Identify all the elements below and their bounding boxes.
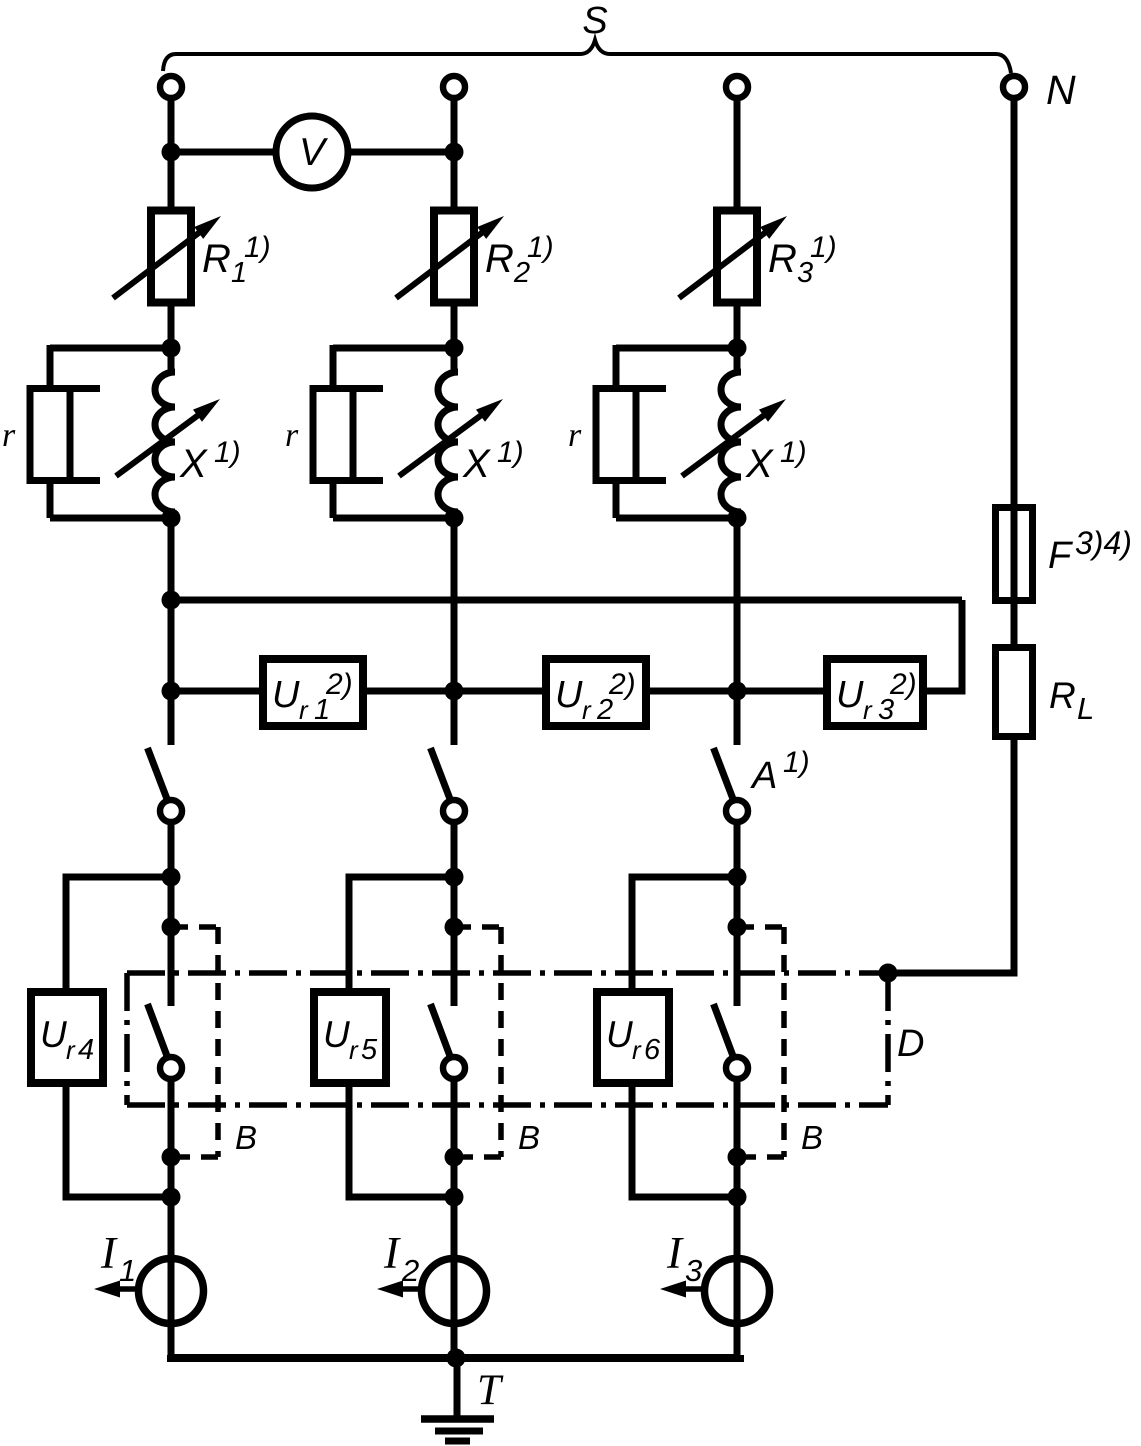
- node phase3 Ur6 top tap: [728, 868, 747, 887]
- wire phase3 r bottom lead: [613, 481, 620, 518]
- current source I3: [705, 1255, 770, 1327]
- label X (phase 1): [179, 436, 241, 486]
- wire phase3 parallel bottom bar: [616, 515, 737, 522]
- svg-text:1: 1: [119, 1253, 136, 1288]
- switch B phase1 box: [171, 927, 218, 1157]
- svg-text:R: R: [485, 237, 514, 281]
- switch B phase2 blade: [431, 1004, 451, 1056]
- svg-text:2): 2): [608, 668, 636, 701]
- wire phase2 top: [451, 97, 458, 211]
- resistor R1 (variable): [113, 211, 221, 303]
- svg-text:r: r: [349, 1035, 359, 1065]
- svg-text:T: T: [477, 1367, 504, 1414]
- svg-text:U: U: [606, 1014, 633, 1055]
- node phase2-V tap: [445, 143, 464, 162]
- svg-text:X: X: [179, 442, 208, 486]
- terminal phase L1: [160, 76, 182, 98]
- voltmeter V1: [276, 116, 348, 188]
- label B phase3: [801, 1119, 823, 1156]
- wire phase2 R-to-parallel: [451, 302, 458, 352]
- resistor r (phase 1): [27, 385, 100, 484]
- switch B phase2 box: [454, 927, 501, 1157]
- svg-text:2: 2: [401, 1253, 419, 1288]
- switch B phase1 contact: [160, 1057, 182, 1079]
- wire Ur6 bottom lead: [632, 1086, 737, 1197]
- svg-text:U: U: [40, 1014, 67, 1055]
- svg-text:5: 5: [361, 1034, 378, 1066]
- node phase2 Ur5 bottom tap: [445, 1188, 464, 1207]
- switch A phase2 blade: [431, 748, 451, 799]
- node phase3 parallel top: [728, 339, 747, 358]
- svg-text:3)4): 3)4): [1075, 525, 1132, 561]
- label B phase1: [235, 1119, 257, 1156]
- svg-text:2): 2): [325, 668, 353, 701]
- boundary D right: [885, 973, 891, 1105]
- svg-text:1): 1): [497, 436, 524, 469]
- wire to Ur5 top: [349, 877, 454, 992]
- switch A phase2 stub: [451, 691, 458, 745]
- svg-text:1): 1): [810, 231, 837, 264]
- resistor R2 (variable): [396, 211, 504, 303]
- label S: [582, 0, 607, 42]
- arrow I1: [94, 1281, 137, 1298]
- node phase1 parallel top: [162, 339, 181, 358]
- wire phase1 r top lead: [47, 345, 54, 389]
- current source I2: [422, 1255, 487, 1327]
- wire phase1 parallel bottom bar: [50, 515, 171, 522]
- switch B phase3 blade: [714, 1004, 734, 1056]
- node phase1 Ur4 top tap: [162, 868, 181, 887]
- svg-text:R: R: [1049, 675, 1076, 716]
- inductor X (phase 1): [116, 348, 220, 518]
- svg-text:U: U: [836, 674, 864, 716]
- node phase3 parallel bottom: [728, 509, 747, 528]
- resistor r (phase 3): [593, 385, 666, 484]
- wire bottom bus: [171, 1355, 740, 1358]
- svg-text:F: F: [1048, 535, 1073, 577]
- terminal neutral N: [1003, 76, 1025, 98]
- wire phase2 r bottom lead: [330, 481, 337, 518]
- wire Ur4 bottom lead: [66, 1086, 171, 1197]
- wire Ur5 bottom lead: [349, 1086, 454, 1197]
- wire N vertical: [1011, 97, 1018, 507]
- svg-text:r: r: [285, 417, 299, 454]
- node phase1 B-box top: [162, 918, 181, 937]
- node bus2 phase2: [445, 682, 464, 701]
- label R2: [485, 231, 554, 289]
- svg-text:r: r: [568, 417, 582, 454]
- node phase1 Ur4 bottom tap: [162, 1188, 181, 1207]
- label X (phase 2): [462, 436, 524, 486]
- resistor r (phase 2): [310, 385, 383, 484]
- switch A phase3 stub: [734, 691, 741, 745]
- label r (phase 1): [2, 417, 16, 454]
- svg-text:N: N: [1046, 67, 1076, 113]
- svg-text:r: r: [66, 1035, 76, 1065]
- svg-text:B: B: [235, 1119, 257, 1156]
- switch A phase3 contact: [726, 800, 748, 822]
- wire phase3 parallel top bar: [616, 345, 737, 352]
- svg-text:3: 3: [685, 1253, 702, 1288]
- label I1: [100, 1228, 136, 1288]
- arrow I2: [377, 1281, 420, 1298]
- bus label brace S: [163, 40, 1011, 73]
- node phase1 parallel bottom: [162, 509, 181, 528]
- switch B phase2 contact: [443, 1057, 465, 1079]
- svg-text:U: U: [272, 674, 300, 716]
- inductor X (phase 3): [682, 348, 786, 518]
- current source I1: [139, 1255, 204, 1327]
- node D-line junction: [879, 964, 898, 983]
- svg-text:2): 2): [889, 668, 917, 701]
- label r (phase 3): [568, 417, 582, 454]
- svg-text:1): 1): [214, 436, 241, 469]
- svg-text:I: I: [100, 1228, 118, 1278]
- label Ur6: [606, 1014, 661, 1066]
- wire phase1 parallel top bar: [50, 345, 171, 352]
- resistor RL: [996, 648, 1033, 737]
- svg-text:r: r: [582, 695, 592, 725]
- switch B phase3 box: [737, 927, 784, 1157]
- wire bus1 horizontal: [171, 597, 962, 604]
- wire phase2 to ground bus: [451, 1324, 458, 1357]
- block Ur4: [31, 992, 103, 1083]
- wire phase1 below B: [168, 1081, 175, 1258]
- wire phase3 r top lead: [613, 345, 620, 389]
- svg-text:V: V: [299, 131, 329, 174]
- wire phase1 below A: [168, 824, 175, 1006]
- switch A phase3 blade: [714, 748, 734, 799]
- label Ur4: [40, 1014, 94, 1066]
- resistor R3 (variable): [679, 211, 787, 303]
- svg-text:R: R: [202, 237, 231, 281]
- node phase2 B-box top: [445, 918, 464, 937]
- block Ur5: [314, 992, 386, 1083]
- switch A phase1 blade: [148, 748, 168, 799]
- wire phase3 below A: [734, 824, 741, 1006]
- switch A phase2 contact: [443, 800, 465, 822]
- wire phase2 below A: [451, 824, 458, 1006]
- svg-text:A: A: [750, 755, 777, 797]
- label T: [477, 1367, 504, 1414]
- node phase2 Ur5 top tap: [445, 868, 464, 887]
- svg-text:X: X: [462, 442, 491, 486]
- svg-text:D: D: [897, 1023, 924, 1065]
- node bus1 phase1: [162, 591, 181, 610]
- svg-text:U: U: [555, 674, 583, 716]
- node bus2 phase1: [162, 682, 181, 701]
- label R3: [768, 231, 837, 289]
- svg-text:1): 1): [527, 231, 554, 264]
- node ground tap: [447, 1349, 466, 1368]
- terminal phase L2: [443, 76, 465, 98]
- svg-text:L: L: [1077, 691, 1094, 726]
- svg-text:S: S: [582, 0, 607, 42]
- label Ur5: [323, 1014, 378, 1066]
- label Ur1: [272, 668, 353, 726]
- label N: [1046, 67, 1076, 113]
- wire F to RL: [1011, 604, 1018, 647]
- wire phase3 R-to-parallel: [734, 302, 741, 352]
- label I3: [666, 1228, 702, 1288]
- svg-text:r: r: [2, 417, 16, 454]
- wire phase1 to buses: [168, 518, 175, 691]
- svg-text:B: B: [518, 1119, 540, 1156]
- wire phase1 R-to-parallel: [168, 302, 175, 352]
- svg-text:6: 6: [644, 1034, 661, 1066]
- wire phase2 parallel top bar: [333, 345, 454, 352]
- label r (phase 2): [285, 417, 299, 454]
- ground T stem: [454, 1358, 461, 1419]
- node phase3 B-box bottom: [728, 1148, 747, 1167]
- node phase1 B-box bottom: [162, 1148, 181, 1167]
- switch A phase1 stub: [168, 691, 175, 745]
- wire phase3 top: [734, 97, 741, 211]
- label Ur2: [555, 668, 636, 726]
- label D: [897, 1023, 924, 1065]
- svg-text:r: r: [632, 1035, 642, 1065]
- svg-text:1): 1): [244, 231, 271, 264]
- block Ur1: [263, 659, 363, 726]
- boundary D top: [127, 970, 888, 976]
- block Ur2: [546, 659, 646, 726]
- wire phase2 r top lead: [330, 345, 337, 389]
- wire to Ur6 top: [632, 877, 737, 992]
- fuse F: [996, 504, 1033, 604]
- svg-text:U: U: [323, 1014, 350, 1055]
- arrow I3: [660, 1281, 703, 1298]
- wire bus2 seg3: [650, 688, 823, 695]
- block Ur3: [827, 659, 923, 726]
- wire phase3 to bottom bus: [734, 1324, 741, 1357]
- wire phase1 top: [168, 97, 175, 211]
- ground symbol: [421, 1419, 494, 1441]
- node bus2 phase3: [728, 682, 747, 701]
- wire phase2 below B: [451, 1081, 458, 1258]
- wire phase3 below B: [734, 1081, 741, 1258]
- node phase2 parallel bottom: [445, 509, 464, 528]
- svg-text:1): 1): [780, 436, 807, 469]
- block Ur6: [597, 992, 669, 1083]
- svg-text:4: 4: [78, 1034, 94, 1066]
- wire phase2 to buses: [451, 518, 458, 691]
- wire bus1 right drop: [923, 600, 962, 691]
- switch B phase1 blade: [148, 1004, 168, 1056]
- switch A phase1 contact: [160, 800, 182, 822]
- svg-text:B: B: [801, 1119, 823, 1156]
- wire V right: [349, 149, 454, 156]
- boundary D left: [124, 973, 130, 1105]
- node phase2 B-box bottom: [445, 1148, 464, 1167]
- svg-text:r: r: [299, 695, 309, 725]
- svg-text:X: X: [745, 442, 774, 486]
- node phase2 parallel top: [445, 339, 464, 358]
- label X (phase 3): [745, 436, 807, 486]
- node phase1-V tap: [162, 143, 181, 162]
- wire phase3 to buses: [734, 518, 741, 691]
- svg-text:I: I: [383, 1228, 401, 1278]
- wire RL down to D corner: [888, 740, 1014, 973]
- svg-text:r: r: [863, 695, 873, 725]
- wire phase2 parallel bottom bar: [333, 515, 454, 522]
- svg-text:R: R: [768, 237, 797, 281]
- node phase3 Ur6 bottom tap: [728, 1188, 747, 1207]
- wire phase1 to bottom bus: [168, 1324, 175, 1357]
- wire to Ur4 top: [66, 877, 171, 992]
- label B phase2: [518, 1119, 540, 1156]
- terminal phase L3: [726, 76, 748, 98]
- svg-text:1): 1): [783, 746, 810, 779]
- label R1: [202, 231, 271, 289]
- svg-text:I: I: [666, 1228, 684, 1278]
- label Ur3: [836, 668, 917, 726]
- wire V left: [171, 149, 275, 156]
- label F: [1048, 525, 1132, 577]
- label I2: [383, 1228, 419, 1288]
- wire bus2 seg1: [171, 688, 259, 695]
- wire bus2 seg2: [367, 688, 542, 695]
- label A: [750, 746, 810, 797]
- label RL: [1049, 675, 1094, 726]
- node phase3 B-box top: [728, 918, 747, 937]
- wire phase1 r bottom lead: [47, 481, 54, 518]
- boundary D bottom: [127, 1102, 888, 1108]
- switch B phase3 contact: [726, 1057, 748, 1079]
- inductor X (phase 2): [399, 348, 503, 518]
